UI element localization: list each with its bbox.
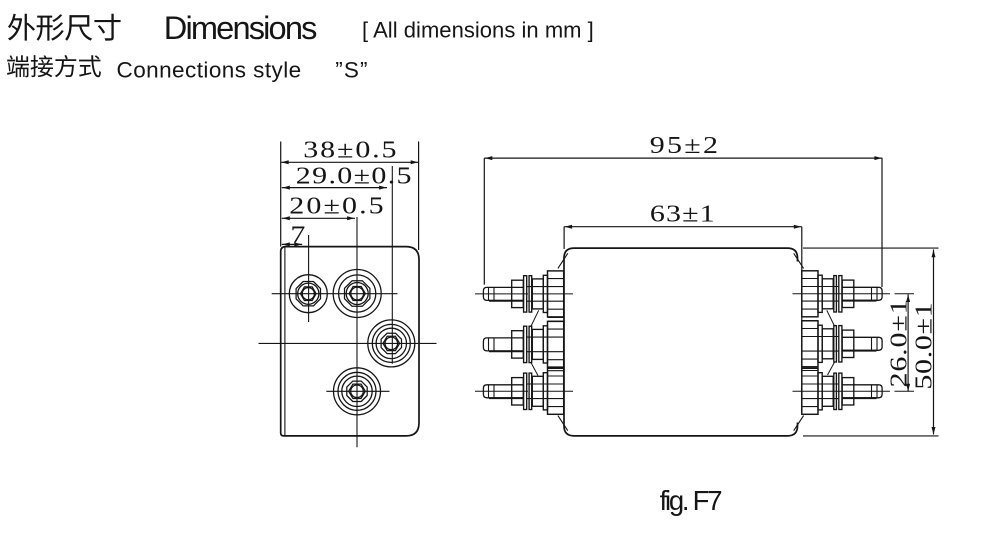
svg-text:”S”: ”S” [335, 58, 367, 83]
svg-text:[ All dimensions in mm ]: [ All dimensions in mm ] [362, 18, 594, 43]
svg-text:26.0±1: 26.0±1 [885, 299, 912, 387]
svg-text:20±0.5: 20±0.5 [289, 192, 383, 219]
svg-text:Connections style: Connections style [117, 58, 302, 83]
svg-text:Dimensions: Dimensions [164, 9, 318, 46]
svg-text:fig. F7: fig. F7 [660, 485, 723, 516]
svg-text:95±2: 95±2 [650, 132, 718, 159]
svg-text:63±1: 63±1 [650, 200, 715, 227]
svg-text:50.0±1: 50.0±1 [910, 302, 937, 389]
svg-text:29.0±0.5: 29.0±0.5 [296, 162, 412, 189]
svg-text:7: 7 [290, 221, 305, 248]
svg-text:38±0.5: 38±0.5 [303, 136, 396, 163]
